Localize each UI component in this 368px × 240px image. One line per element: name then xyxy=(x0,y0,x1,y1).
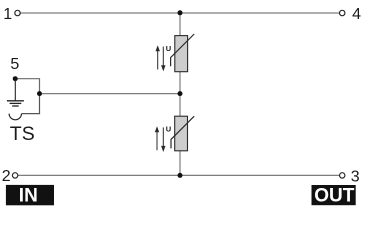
wire: vertical link varistor RV2 to bottom junction xyxy=(179,151,181,176)
OUT box xyxy=(312,185,356,207)
varistor RV1 xyxy=(171,34,195,72)
svg-text:OUT: OUT xyxy=(314,186,355,207)
terminal 3 circle xyxy=(340,173,345,178)
voltage arrows of RV2 xyxy=(155,126,166,152)
voltage arrows of RV1 xyxy=(156,45,166,71)
terminal 4 circle xyxy=(340,10,345,15)
wire: vertical link varistor RV1 to varistor RV2 xyxy=(179,72,181,117)
wire: top line from terminal 1 to terminal 4 xyxy=(21,12,340,14)
ground (earth symbol at terminal 5) xyxy=(7,80,24,106)
node: terminal 5 connection dot xyxy=(13,76,18,81)
terminal 1 circle xyxy=(15,10,20,15)
svg-text:4: 4 xyxy=(352,6,361,23)
wire: terminal 5 to node A (right then down) xyxy=(15,79,39,94)
terminal 2 circle xyxy=(12,173,17,178)
svg-text:1: 1 xyxy=(3,6,12,23)
wire: bottom line from terminal 2 to terminal 3 xyxy=(18,174,340,176)
wire: middle line from node A to center column xyxy=(40,93,181,95)
node A: junction of earth branch and middle wire xyxy=(37,91,42,96)
svg-text:3: 3 xyxy=(351,169,360,186)
svg-text:5: 5 xyxy=(10,56,19,73)
svg-text:U: U xyxy=(166,44,171,53)
svg-text:2: 2 xyxy=(2,168,11,185)
svg-text:TS: TS xyxy=(10,123,35,145)
svg-text:IN: IN xyxy=(19,186,38,207)
node: bottom junction on line 2-3 xyxy=(178,173,183,178)
node: top junction on line 1-4 xyxy=(178,10,183,15)
wire: node A down to disconnect arc TS xyxy=(22,94,40,114)
varistor RV2 xyxy=(171,116,194,151)
svg-text:U: U xyxy=(166,125,171,134)
node: middle junction on center column xyxy=(178,91,183,96)
IN box xyxy=(6,185,54,207)
disconnect arc TS (plug-in earth connection) xyxy=(9,114,21,120)
wire: vertical link top junction to varistor RV1 xyxy=(179,13,181,36)
